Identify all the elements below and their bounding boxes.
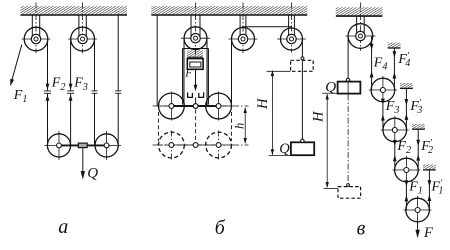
extension line top H (b) (267, 70, 291, 72)
rope anchor strand left (b) (156, 15, 158, 106)
fixed pulley P2 (a) (68, 3, 97, 54)
dynamometer rod arrow (194, 69, 198, 91)
svg-text:F′1: F′1 (431, 178, 444, 197)
svg-text:б: б (215, 217, 226, 239)
ceiling hatch for block a (21, 6, 128, 15)
fixed pulley B3 (b) (277, 3, 306, 53)
label Q (v) (325, 79, 336, 95)
rope strand B->C force arrows (393, 140, 397, 161)
hook eye circle (b) (193, 104, 198, 109)
label h (233, 123, 247, 129)
rope strand anchor1->A (393, 48, 395, 90)
movable pulley L2 (b) (204, 92, 233, 121)
svg-text:H: H (311, 110, 327, 123)
label F3 (385, 99, 400, 116)
rope strand top->A (371, 36, 373, 90)
cascade pulley D (v) (404, 196, 432, 224)
svg-text:F′2: F′2 (420, 137, 433, 156)
ceiling hatch for block b (151, 6, 307, 15)
phantom drop line left (158, 112, 160, 141)
rope strand anchor1->A force arrows (393, 51, 397, 78)
fixed pulley B1 (b) (181, 3, 210, 59)
phantom bar (b) (171, 144, 218, 146)
phantom drop line right (231, 112, 233, 141)
axis line lower pulleys (b) (153, 105, 249, 107)
cut marks strand 3 (92, 91, 98, 93)
rope strand 2 (a) (70, 39, 72, 145)
label F1' (431, 178, 444, 197)
ceiling hatch for block v (336, 7, 383, 16)
force arrow F3 down (69, 84, 73, 90)
dimension H line (b) (271, 70, 274, 155)
axis line phantom pulleys (b) (153, 144, 249, 146)
rope strand to pulley B2 (231, 39, 233, 106)
wall anchor 1 (v) (388, 43, 401, 48)
extension line bottom H (b) (269, 154, 291, 156)
dynamometer body (187, 59, 203, 70)
label F2 (51, 76, 66, 93)
label H (v) (311, 110, 327, 123)
rope strand anchor2->B (405, 89, 407, 130)
load arrow Q (a) (81, 148, 85, 180)
cascade pulley C (v) (392, 156, 420, 184)
coupling block (a) (78, 143, 87, 148)
phantom drop line centre (195, 110, 197, 142)
svg-text:а: а (58, 216, 68, 238)
svg-text:F: F (184, 68, 193, 80)
label Q (b) (279, 141, 290, 157)
label F3' (409, 97, 422, 116)
rope strand C->D (405, 182, 407, 210)
svg-text:H: H (255, 97, 271, 110)
rope strand 1 (a) (47, 39, 49, 145)
rope strand C->D force arrows (405, 180, 409, 201)
rope strand 4 (a) (117, 15, 119, 145)
wire rope F1 pull (10, 45, 22, 86)
extension line bottom H (v) (324, 187, 338, 189)
cut marks strand 4 (115, 91, 121, 93)
svg-text:h: h (233, 123, 247, 129)
wall anchor 4 (v) (423, 165, 436, 170)
label F3 (73, 76, 88, 93)
label F (v) (423, 225, 433, 241)
fixed pulley B2 (b) (229, 3, 258, 54)
phantom load (b) (291, 57, 314, 71)
phantom centreline (v) (347, 95, 349, 185)
label F (b) (184, 68, 193, 80)
svg-text:F′4: F′4 (397, 51, 410, 70)
svg-text:Q: Q (279, 141, 290, 157)
rope over pulleys B2-B3 (242, 26, 292, 28)
movable pulley L1 (b) (157, 92, 186, 121)
rope strand top->A force arrows (370, 44, 374, 78)
rope strand anchor3->C (417, 129, 419, 170)
wall anchor 2 (v) (400, 83, 413, 88)
rope strand to pulley B1 left (183, 39, 185, 106)
bar between lower pulleys (b) (171, 105, 218, 107)
force arrow F3 up (69, 95, 73, 101)
rope strand A->B (382, 102, 384, 130)
rope strand A->B force arrows (381, 99, 385, 121)
svg-text:Q: Q (87, 166, 98, 182)
cut marks strand 2 (67, 91, 74, 93)
svg-text:F: F (423, 225, 433, 241)
label a (58, 216, 68, 238)
load block Q (v) (338, 82, 361, 94)
phantom hook circle (b) (193, 143, 198, 148)
movable pulley P4 (a) (92, 131, 121, 160)
force arrow F2 down (46, 84, 50, 90)
fixed pulley P1 (a) (22, 3, 51, 54)
wall anchor 3 (v) (412, 124, 425, 129)
rope to load (b) (301, 39, 303, 139)
label F4 (373, 56, 388, 73)
fixed pulley TV (v) (345, 3, 375, 51)
hook eye circle (v) (346, 78, 349, 81)
dimension h line (244, 107, 247, 144)
phantom pulley L1 (b) (157, 131, 186, 160)
movable pulley P3 (a) (45, 131, 74, 160)
label F2 (396, 139, 411, 156)
extension line top H (v) (322, 92, 337, 94)
rope strand anchor4->D force arrows (428, 180, 432, 201)
label v (357, 217, 366, 239)
hook stem (b) (195, 97, 197, 103)
dimension H line (v) (326, 94, 329, 188)
label Q (a) (87, 166, 98, 182)
clevis hooks (b) (188, 92, 204, 97)
svg-text:в: в (357, 217, 366, 239)
label b (215, 217, 226, 239)
label F1 (408, 179, 423, 196)
phantom pulley L2 (b) (204, 131, 233, 160)
rope strand anchor4->D (428, 170, 430, 210)
frame hatch band (187, 50, 203, 57)
pull arrow F (v) (415, 222, 419, 238)
bar between movable pulleys (a) (59, 144, 107, 146)
svg-text:F′3: F′3 (409, 97, 422, 116)
rope strand anchor2->B force arrows (405, 99, 409, 120)
cascade pulley B (v) (381, 116, 409, 144)
frame walls (b) (183, 49, 209, 105)
load block (b) (291, 139, 314, 155)
cut marks strand 1 (44, 91, 51, 93)
rope to load (v) (347, 36, 349, 78)
phantom load (v) (338, 184, 361, 199)
rope strand to pulley B1 right (206, 39, 208, 106)
force arrow F2 up (46, 95, 50, 101)
label H (b) (255, 97, 271, 110)
cascade pulley A (v) (369, 76, 397, 104)
label F1 (13, 88, 28, 105)
rope strand anchor3->C force arrows (416, 140, 420, 161)
label F4' (397, 51, 410, 70)
label F2' (420, 137, 433, 156)
rope strand B->C (394, 142, 396, 170)
rope strand 3 (a) (94, 39, 96, 145)
